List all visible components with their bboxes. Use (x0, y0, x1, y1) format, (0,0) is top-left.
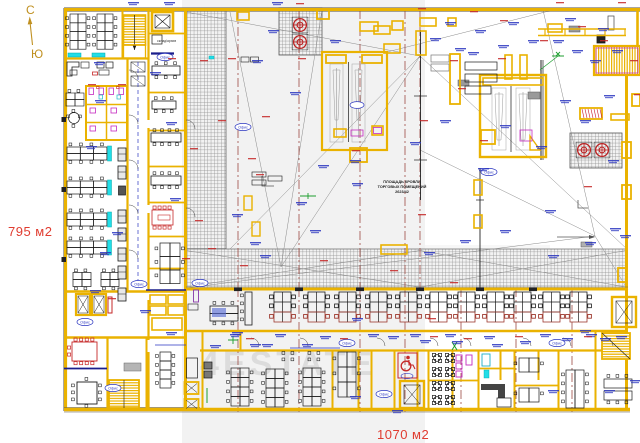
office band desk cluster 1 (270, 292, 296, 322)
escalator shaft right (480, 75, 546, 157)
middle room desks y135 (151, 129, 181, 146)
svg-text:С: С (26, 3, 35, 17)
kitchen counter bottom (481, 384, 511, 407)
cyan cabinet group 3 (108, 212, 112, 227)
roof fan top 1 (292, 17, 308, 33)
svg-text:Офис: Офис (342, 341, 352, 345)
top right furniture and partitions (384, 21, 527, 104)
red mark sofa area (93, 72, 98, 75)
small office round table (67, 110, 82, 128)
desks room x152 bottom (156, 352, 175, 388)
wall x146 lower room (146, 338, 148, 411)
roof fan right 1 (576, 142, 592, 158)
outer wall bottom (64, 407, 630, 412)
middle room desks y172 (151, 172, 181, 189)
bottom band room partition walls (203, 331, 596, 411)
svg-text:Ю: Ю (31, 47, 43, 61)
corner mark (262, 176, 588, 208)
cyan cabinet group 1 (108, 146, 112, 161)
electrical closets corridor (131, 62, 145, 86)
wall desk islands (282, 352, 320, 361)
svg-text:Офис: Офис (552, 341, 562, 345)
stair bottom-left treads (109, 380, 139, 408)
wall y288 sales/office band (186, 287, 628, 289)
left block wall y291 (64, 290, 185, 292)
coffee tables (97, 62, 113, 75)
printer gray box (124, 363, 141, 371)
left office desk group 1 (67, 143, 107, 163)
office band desk cluster 6 (426, 292, 452, 322)
svg-text:ТОРГОВЫХ ПОМЕЩЕНИЙ: ТОРГОВЫХ ПОМЕЩЕНИЙ (378, 185, 427, 189)
middle room meeting table b (152, 97, 176, 113)
left block wall x122 upper (122, 8, 124, 58)
svg-text:Офис: Офис (195, 281, 205, 285)
gray label box right (458, 80, 540, 99)
middle room meeting table a (152, 62, 180, 79)
office band chair column (241, 292, 253, 325)
open office desk group 2 (262, 369, 288, 407)
toilet fixtures bottom band (456, 354, 490, 377)
hatched floor strip left of sales area (186, 10, 226, 249)
office band desk cluster 2 (304, 292, 330, 322)
green marker 3 (452, 342, 457, 350)
left office desk group 4 (67, 237, 107, 257)
blue corridor dim lines (155, 345, 340, 348)
stairwell top-left treads (124, 15, 146, 58)
stair bottom right treads (602, 333, 630, 359)
top wall small yellow boxes (317, 10, 562, 34)
svg-text:Офис: Офис (134, 282, 144, 286)
red door bar (108, 297, 112, 313)
open office desk group 3 (299, 368, 325, 406)
left office small cluster 1 (73, 269, 91, 290)
svg-text:Офис: Офис (108, 386, 118, 390)
open office desk group 1 (227, 368, 253, 406)
door swing arcs (129, 70, 613, 346)
svg-text:склад/архив: склад/архив (157, 39, 176, 43)
vertical dimension line x480 (476, 168, 484, 288)
bottom room vertical desks x338 (333, 352, 360, 397)
svg-text:Офис: Офис (80, 320, 90, 324)
gray label box LK01 (569, 26, 580, 32)
wall between left block and sales area x185 (184, 8, 187, 411)
top-left office desk columns (66, 14, 117, 49)
cyan cabinet group 4 (108, 240, 112, 255)
office band desk cluster 5 (396, 292, 422, 322)
office band purple duct (188, 290, 199, 310)
roof fan top 2 (292, 34, 308, 50)
area label 795 m2 (8, 224, 52, 239)
blue dashed corridor line (137, 62, 139, 285)
right wall small boxes (474, 94, 640, 282)
green marker 2 (300, 193, 316, 199)
narrow duct above stair (608, 16, 614, 30)
desks column bottom right (562, 370, 589, 408)
office band desk cluster 10 (539, 292, 565, 322)
svg-text:Офис: Офис (238, 125, 248, 129)
meeting table with red chairs (152, 206, 173, 229)
green marker 1 (540, 52, 564, 70)
gray logo box (581, 242, 592, 247)
diagonal construction lines across sales area (186, 10, 628, 290)
left office desk group 2 (67, 177, 107, 197)
office band desk cluster 11 (566, 292, 592, 322)
wall y330 office band bottom (186, 330, 628, 332)
left block lower divider y376 navy (64, 368, 107, 370)
watermark gray band (182, 0, 425, 443)
white fixtures y57 (241, 57, 259, 62)
outer wall left (64, 8, 66, 411)
area label 1070 m2 (377, 427, 429, 442)
toilet fixtures magenta (89, 87, 124, 132)
cyan small marks (209, 56, 489, 378)
left block wall x107 lower (106, 338, 108, 411)
office band lift right (612, 297, 636, 327)
vertical dimension line x541 (541, 60, 543, 160)
office band desk cluster 9 (510, 292, 536, 322)
node arrow right (557, 235, 595, 239)
service boxes left column (185, 358, 213, 410)
small office desks left y92 (66, 90, 84, 107)
stair right treads (594, 35, 640, 75)
compass arrow (28, 17, 33, 46)
cafe round tables centre (432, 353, 454, 404)
hatched vent block right with border (570, 133, 622, 168)
left wall black piers (62, 117, 67, 262)
office band desk cluster 4 (366, 292, 392, 322)
svg-text:1070 м2: 1070 м2 (377, 427, 429, 442)
red dash-dot column grid axes (238, 10, 572, 412)
meeting table red chairs bottom-left (68, 338, 98, 365)
left block middle wall x148 (147, 8, 149, 411)
cyan cabinet group 2 (108, 180, 112, 195)
left block wall y336 (64, 336, 185, 338)
blue room label ovals (77, 53, 565, 397)
compass north label (26, 3, 35, 17)
service lifts pair (76, 294, 106, 315)
strip small fixtures (244, 18, 456, 254)
desks room far bottom right (604, 375, 632, 404)
desks room x519 (514, 358, 543, 402)
office band horizontal cluster left (210, 302, 238, 325)
bottom rooms horizontal partitions (428, 369, 558, 386)
office band desk cluster 3 (335, 292, 361, 322)
outer wall right (627, 8, 638, 411)
storage room wall (148, 34, 185, 45)
svg-text:2623/42: 2623/42 (395, 190, 409, 194)
corridor navy line y290 (146, 289, 186, 291)
office band desk cluster 8 (483, 292, 509, 322)
office band wall piers (234, 288, 537, 292)
middle room vertical desk pairs (155, 243, 184, 284)
left block wall y58 (64, 57, 148, 59)
green marker 4 (228, 336, 238, 344)
roof fan right 2 (594, 142, 610, 158)
hatched vent block top with border (279, 8, 322, 55)
lift bottom centre (400, 381, 424, 408)
yellow box above fans (237, 12, 249, 20)
svg-text:795 м2: 795 м2 (8, 224, 52, 239)
watermark 4ESTATE letters (200, 345, 376, 383)
wall y350 corridor bottom (200, 349, 628, 351)
tiny red annotation marks (88, 2, 640, 339)
cabinets along corridor wall (118, 148, 126, 301)
archive racks (150, 295, 184, 330)
middle column room partitions (148, 93, 185, 269)
storage room label (157, 39, 176, 43)
compass south label (31, 47, 43, 61)
sofa group (67, 62, 89, 76)
left office desk group 3 (67, 209, 107, 229)
watermark faint band 2 (425, 245, 550, 290)
green line mark (206, 388, 208, 403)
left office small cluster 2 (101, 269, 119, 290)
office band desk cluster 7 (454, 292, 480, 322)
toilet block walls (86, 86, 127, 140)
hatched floor band bottom of sales area (186, 249, 626, 288)
vertical dimension line x420 (414, 30, 427, 200)
central area text (378, 180, 427, 194)
svg-text:Офис: Офис (379, 392, 389, 396)
cyan cabinets top office (68, 53, 105, 57)
navy duct bar top-left (151, 52, 174, 54)
left block corridor wall x127 (126, 58, 128, 291)
escalator shaft centre (322, 52, 387, 162)
top duct corridor right (538, 29, 626, 36)
svg-text:ПЛОЩАДЬ КРОВЛИ: ПЛОЩАДЬ КРОВЛИ (383, 180, 421, 184)
meeting table bottom-left 2 (72, 378, 102, 408)
outer wall top (64, 8, 640, 12)
lift top-left with cross (152, 12, 173, 31)
accessible wc room (398, 353, 417, 379)
